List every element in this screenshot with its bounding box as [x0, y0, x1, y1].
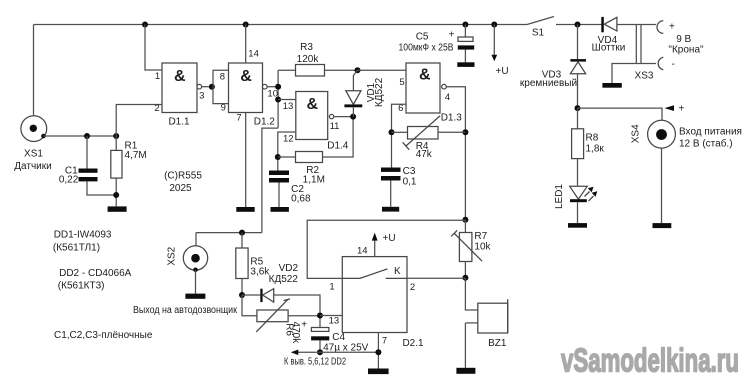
svg-text:C5: C5 [416, 32, 429, 43]
resistor R8 [572, 129, 584, 159]
svg-text:9 В: 9 В [676, 34, 691, 45]
svg-text:+: + [679, 104, 685, 115]
svg-text:3,6k: 3,6k [250, 267, 270, 278]
capacitor C2 [269, 171, 289, 183]
wire C2 bottom [278, 183, 280, 208]
wire VD2 cathode to C4 node [274, 295, 320, 328]
svg-text:КД522: КД522 [374, 77, 385, 107]
svg-text:DD2 - CD4066A: DD2 - CD4066A [59, 268, 132, 279]
wire D1.2 pin14 to bus [245, 25, 247, 64]
wire XS1 output [44, 135, 117, 137]
wire to DD2 pins arrow [291, 350, 379, 356]
resistor R1 [111, 150, 122, 178]
wire top supply bus left part [34, 24, 528, 26]
svg-text:4,7M: 4,7M [125, 150, 147, 161]
wire XS2 bottom to ground [195, 270, 197, 293]
svg-text:vSamodelkina.ru: vSamodelkina.ru [561, 342, 739, 379]
svg-text:XS2: XS2 [167, 246, 178, 265]
ground under BZ1 [456, 368, 475, 374]
svg-text:Выход на автодозвонщик: Выход на автодозвонщик [133, 305, 238, 316]
wire R1 top [115, 136, 117, 150]
node junction R3 VD1 [355, 67, 361, 73]
svg-text:-: - [672, 59, 675, 70]
svg-text:Датчики: Датчики [14, 161, 51, 172]
connector XS1 [21, 116, 47, 142]
wire R2 right up to node 11 [323, 117, 354, 157]
svg-text:C1,C2,C3-плёночные: C1,C2,C3-плёночные [54, 330, 153, 341]
node junction R2 left [275, 154, 281, 160]
svg-text:13: 13 [283, 101, 294, 112]
svg-text:C3: C3 [403, 166, 416, 177]
gate D1.4 output bubble [329, 114, 333, 118]
svg-text:XS3: XS3 [635, 70, 654, 81]
svg-text:12 В (стаб.): 12 В (стаб.) [679, 138, 733, 150]
svg-text:К выв. 5,6,12 DD2: К выв. 5,6,12 DD2 [284, 356, 346, 367]
node junction 10 upper [275, 84, 281, 90]
wire D1.3 out right and down [446, 87, 465, 220]
svg-text:R8: R8 [586, 132, 599, 143]
power +U arrow at D2.1 [372, 233, 396, 257]
ground under D1.2 pin7 [236, 207, 254, 212]
svg-text:"Крона": "Крона" [668, 44, 704, 55]
svg-text:14: 14 [248, 49, 259, 60]
diode VD3 [570, 59, 586, 74]
wire bus to D1.1 pin1 [145, 25, 162, 71]
node junction at D1.2 pin14 [243, 22, 249, 28]
resistor R5 [236, 248, 248, 279]
wire XS2 top [195, 233, 197, 246]
wire top bus after S1 [556, 24, 602, 26]
svg-text:&: & [240, 68, 252, 85]
wire R7 top feed to D2.1 pin1 riser [307, 220, 465, 278]
svg-text:100мкФ х 25В: 100мкФ х 25В [399, 43, 454, 54]
svg-text:&: & [419, 66, 431, 83]
wire XS2 node horizontal [196, 232, 262, 234]
connector XS3 plug lines [636, 25, 641, 64]
wire C1 bottom [87, 181, 116, 195]
wire node to XS4 [578, 108, 663, 120]
LED LED1 [570, 186, 598, 202]
resistor R2 [296, 152, 323, 163]
wire R5 top [241, 233, 243, 248]
wire C3 bottom [390, 181, 392, 207]
svg-text:BZ1: BZ1 [488, 338, 507, 349]
wire C1 top [86, 136, 88, 169]
svg-text:&: & [174, 68, 186, 85]
svg-text:0,68: 0,68 [291, 194, 311, 205]
gate D1.3 output bubble [442, 84, 447, 89]
wire XS1 to D1.1 pin2 [116, 105, 162, 137]
wire R6 right [288, 315, 320, 317]
wire VD3 to node [577, 74, 579, 108]
svg-text:+: + [449, 30, 455, 41]
capacitor C3 [381, 168, 401, 181]
svg-text:КД522: КД522 [269, 274, 299, 285]
node junction C4 ground line [317, 349, 323, 355]
buzzer BZ1 [465, 299, 507, 333]
wire R8 top [577, 108, 579, 129]
svg-text:11: 11 [330, 121, 340, 132]
ground under XS4 [653, 223, 672, 228]
gate D1.1 output bubble [197, 84, 202, 89]
gate D1.4 [296, 92, 328, 140]
svg-text:K: K [394, 266, 401, 277]
wire D1.4 out to node 11 [334, 116, 353, 118]
wire pin13 to D2.1 [320, 315, 342, 317]
node junction at pin1 branch [142, 22, 148, 28]
svg-text:14: 14 [357, 245, 368, 256]
node 3 junction [209, 84, 215, 90]
svg-text:S1: S1 [532, 28, 545, 39]
arrow power input plus [665, 104, 685, 115]
gate D1.2 output bubble [263, 84, 268, 89]
ground under D2.1 [368, 369, 389, 375]
node junction C1 tap [84, 133, 90, 139]
node junction 11 [350, 114, 356, 120]
node junction C4 pin13 [317, 313, 323, 319]
wire VD3 branch down [577, 25, 579, 60]
switch S1 [527, 17, 554, 39]
capacitor C5 [449, 30, 475, 50]
wire D1.2 pin7 to ground [245, 113, 247, 208]
wire left bus down to XS1 [33, 25, 35, 116]
node junction R7 top [462, 217, 468, 223]
node junction R5 VD2 [239, 292, 245, 298]
svg-text:D1.1: D1.1 [168, 117, 190, 128]
svg-text:LED1: LED1 [554, 184, 565, 209]
svg-text:D1.3: D1.3 [441, 112, 463, 123]
ground under XS2 [185, 294, 205, 299]
wire R2 left [278, 156, 296, 158]
wire D1.3 pin6 down [392, 104, 407, 167]
svg-text:кремниевый: кремниевый [520, 78, 577, 89]
svg-text:(C)R555: (C)R555 [164, 171, 202, 182]
diode VD1 [344, 70, 362, 116]
svg-text:D1.4: D1.4 [327, 140, 349, 151]
wire C4 bottom [319, 340, 321, 352]
connector XS4 [648, 120, 676, 148]
svg-text:470k: 470k [290, 322, 301, 345]
svg-text:(К561КТ3): (К561КТ3) [58, 280, 105, 291]
node junction R5 top [239, 230, 245, 236]
wire node10 jog down to XS2 node [262, 128, 278, 233]
diode VD4 Schottky [601, 17, 617, 32]
svg-text:R3: R3 [300, 42, 313, 53]
node junction R4 right [462, 129, 468, 135]
node junction R1 C1 ground [113, 192, 119, 198]
ground under C2 [271, 207, 289, 212]
wire XS4 bottom to ground [661, 148, 663, 223]
wire D1.2 out to node 10 [267, 86, 278, 88]
gate D1.3 [406, 63, 440, 113]
svg-text:9: 9 [221, 103, 226, 114]
wire R3 right [325, 69, 358, 71]
node junction at +U tap [491, 22, 497, 28]
node junction R7 bottom pin2 [462, 275, 468, 281]
wire BZ1 to ground [464, 323, 466, 368]
resistor R7 trimmer [451, 220, 482, 278]
wire D2.1 pin2 to node [407, 277, 465, 279]
node junction pin7 C4 line [375, 349, 381, 355]
wire node13 to D1.4 [278, 99, 296, 101]
svg-text:12: 12 [283, 133, 294, 144]
svg-text:4: 4 [445, 92, 450, 103]
svg-text:0,22: 0,22 [59, 175, 79, 186]
node junction VD3 R8 XS4 [575, 105, 581, 111]
svg-text:10k: 10k [474, 241, 491, 252]
svg-text:D1.2: D1.2 [254, 117, 276, 128]
wire D1.1 out to node 3 [202, 86, 212, 88]
wire node3 bracket to D1.2 inputs [213, 70, 229, 103]
svg-text:5: 5 [399, 77, 404, 88]
node junction at C5 [462, 22, 468, 28]
connector XS3 top socket arc [657, 21, 663, 34]
svg-text:3: 3 [199, 90, 204, 101]
gate D1.1 [162, 63, 197, 113]
wire to D1.3 pin5 [358, 69, 407, 71]
svg-text:1: 1 [155, 71, 160, 82]
node junction R1 tap [113, 133, 119, 139]
svg-text:+: + [301, 320, 307, 331]
svg-text:VD2: VD2 [279, 263, 299, 274]
svg-text:2: 2 [154, 103, 159, 114]
svg-text:DD1-IW4093: DD1-IW4093 [54, 230, 112, 241]
wire XS3 bottom to ground [612, 64, 656, 84]
node junction at VD3 branch [575, 22, 581, 28]
svg-text:+U: +U [383, 233, 396, 244]
node junction 10 lower [275, 97, 281, 103]
resistor R6 trimmer [256, 299, 290, 332]
svg-text:&: & [307, 96, 319, 113]
wire D1.4 pin12 to C2 column [278, 132, 296, 171]
power +U arrow top [491, 25, 508, 78]
diode VD2 [260, 289, 273, 302]
ground under XS3 [602, 83, 621, 88]
resistor R4 trimmer [392, 116, 466, 150]
wire R5 bottom [241, 279, 243, 296]
wire LED1 to ground [577, 202, 579, 223]
connector XS3 bottom socket arc [658, 57, 663, 69]
svg-text:8: 8 [220, 72, 225, 83]
wire R1 bottom [115, 178, 117, 206]
wire R3 left [278, 69, 295, 71]
svg-text:+U: +U [496, 66, 509, 77]
ground under C3 [382, 207, 399, 212]
svg-text:(К561ТЛ1): (К561ТЛ1) [53, 243, 100, 254]
ground under C5 [457, 62, 474, 67]
wire pin2 node down to BZ1 [465, 278, 477, 310]
svg-text:1,1M: 1,1M [303, 174, 325, 185]
node junction R4 left [389, 129, 395, 135]
svg-text:1,8к: 1,8к [586, 143, 605, 154]
capacitor C5 top wire [464, 25, 466, 38]
svg-text:D2.1: D2.1 [402, 338, 424, 349]
svg-text:Вход питания: Вход питания [679, 127, 742, 138]
svg-text:120k: 120k [297, 54, 320, 65]
connector XS2 [183, 246, 207, 272]
svg-text:Шоттки: Шоттки [592, 43, 626, 54]
svg-text:13: 13 [329, 316, 340, 327]
switch block D2.1 [342, 257, 407, 333]
svg-text:+: + [669, 21, 675, 32]
ground under LED1 [568, 223, 587, 228]
svg-text:7: 7 [236, 112, 241, 123]
gate D1.2 [229, 63, 263, 113]
svg-text:2025: 2025 [169, 183, 192, 194]
wire R8 to LED [577, 159, 579, 186]
resistor R3 [296, 65, 325, 77]
svg-text:XS4: XS4 [631, 124, 642, 143]
svg-text:0,1: 0,1 [403, 177, 417, 188]
wire D2.1 pin7 to ground [377, 333, 379, 369]
wire node10 column [277, 70, 279, 128]
capacitor C5 bottom wire [464, 50, 466, 63]
capacitor C4 [301, 320, 329, 341]
wire R5 node down to R6 [242, 295, 257, 316]
wire top bus VD4 to XS3 [617, 24, 656, 26]
svg-text:7: 7 [382, 336, 387, 347]
svg-text:2: 2 [410, 282, 415, 293]
svg-text:47k: 47k [416, 149, 433, 160]
svg-text:1: 1 [329, 281, 334, 292]
wire VD2 anode side [242, 294, 260, 296]
ground under R1 [108, 206, 127, 211]
svg-text:XS1: XS1 [24, 148, 43, 159]
capacitor C1 [79, 169, 98, 182]
